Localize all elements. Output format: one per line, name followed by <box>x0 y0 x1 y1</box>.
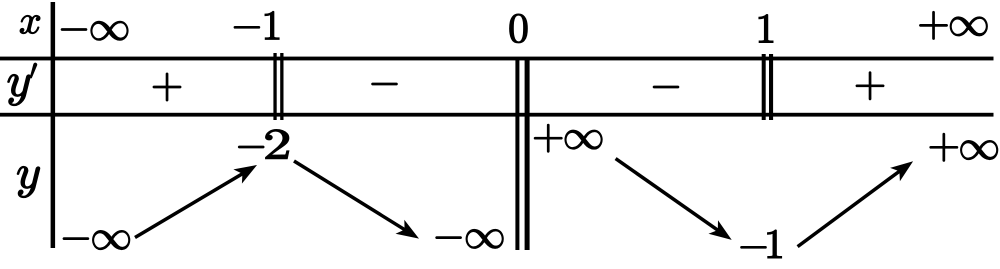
row header y-prime <box>8 63 37 106</box>
arrow rising from -1 to +infinity <box>798 161 914 246</box>
label -1 (x row) <box>234 11 279 39</box>
table frame: top horizontal rule (above y-prime row) <box>0 57 994 61</box>
arrow rising from -infinity to -2 <box>135 165 257 238</box>
value +infinity (y row, right of x=0) <box>534 124 602 152</box>
label 0 (x row) <box>510 14 528 43</box>
double bar at x=0 (full height) <box>515 57 529 250</box>
row header y <box>17 166 39 197</box>
arrow falling from -2 to -infinity <box>294 161 419 239</box>
value -2 (y row, local max at x=-1) <box>238 130 288 159</box>
value +infinity (y row, top right) <box>930 133 998 161</box>
sign + (y-prime row, cell 4) <box>856 72 884 100</box>
label +infinity (x row, right) <box>920 11 988 39</box>
label -infinity (x row, left) <box>61 21 128 40</box>
sign - (y-prime row, cell 2) <box>372 83 398 85</box>
table frame: bottom horizontal rule (below y-prime row) <box>0 113 994 117</box>
double bar at x=1 (y-prime row) <box>762 54 773 120</box>
arrow falling from +infinity to -1 <box>616 159 732 240</box>
row header x <box>20 15 40 33</box>
double bar at x=-1 (y-prime row) <box>273 53 283 120</box>
sign + (y-prime row, cell 1) <box>153 73 181 101</box>
sign - (y-prime row, cell 3) <box>653 86 679 88</box>
value -1 (y row, local min at x=1) <box>741 230 782 258</box>
table frame: left vertical axis line <box>51 2 56 248</box>
value -infinity (y row, left of x=0) <box>436 229 504 248</box>
label 1 (x row) <box>759 15 773 43</box>
value -infinity (y row, bottom left) <box>63 231 130 250</box>
